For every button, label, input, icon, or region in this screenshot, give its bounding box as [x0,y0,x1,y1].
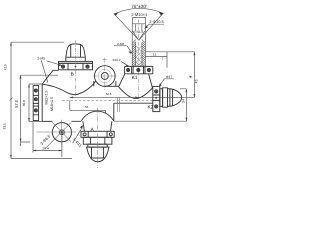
boss centerlines [93,58,119,91]
svg-text:Φ17: Φ17 [166,75,173,79]
extension lines right of boss axis [117,97,119,112]
small dim bracket right of nipple [146,52,168,68]
dim 56 [70,100,106,113]
svg-text:A: A [91,127,95,133]
svg-text:K2: K2 [147,105,153,111]
leader arrowheads [58,25,162,86]
boss circle [95,66,116,87]
svg-text:K1: K1 [132,75,138,81]
arrows 62.6 dim [70,97,73,99]
arrowhead right of arc [159,12,164,16]
dim line right 45 [146,52,195,98]
centerline K2 axis [70,96,195,98]
svg-text:M22×1.5: M22×1.5 [45,90,49,104]
svg-text:2-M5: 2-M5 [37,57,45,61]
dim line left mid 57.5 [21,75,58,146]
A neck [88,144,108,147]
svg-text:45: 45 [194,80,198,84]
svg-text:7: 7 [162,57,164,61]
A hex [83,137,112,144]
tick on x11 line [10,98,13,101]
B centerline [75,41,77,97]
svg-text:2-Φ6.3: 2-Φ6.3 [133,30,143,34]
dim line right 34 [114,89,186,121]
hidden bore dashed line [62,99,153,101]
svg-text:2-Φ10.5: 2-Φ10.5 [149,19,164,24]
svg-text:Φ10.2: Φ10.2 [112,58,121,62]
K1 mound [119,74,153,99]
svg-text:62.6: 62.6 [106,92,112,96]
angle legs 76 deg [114,13,164,40]
dim line left inner 36.8 [29,84,52,121]
dim line left overall height 81.1 [11,42,72,158]
K2 flange [153,86,160,111]
A boss walls [83,121,112,131]
nipple centerline [138,20,140,99]
svg-text:2-M10×1: 2-M10×1 [131,12,148,17]
small arrow at dim 45 [189,76,192,78]
white backing for angle label [129,2,149,8]
svg-text:42.5: 42.5 [3,64,7,70]
dim line mouth [132,18,145,24]
arrowheads dims [10,42,195,158]
svg-text:11: 11 [153,52,157,56]
B flange [59,61,93,69]
svg-text:36.8: 36.8 [22,100,26,106]
A flange [81,131,114,137]
angle arc [114,8,164,14]
spoke centerlines [37,120,77,149]
leader arrow filled [80,125,83,129]
svg-text:3-Φ11: 3-Φ11 [72,137,84,149]
svg-text:56: 56 [85,105,89,109]
body main outline [42,70,153,121]
A centerline [97,108,99,168]
svg-text:B: B [71,71,74,77]
nipple K1 section walls [132,24,145,67]
leader 2-dia10.5 [145,24,164,28]
svg-text:57.5: 57.5 [14,99,19,108]
dim 28.4 bottom [33,122,62,157]
A cap nut [87,147,110,162]
svg-text:34: 34 [182,99,186,103]
arrowhead left of arc [114,12,119,15]
K2 cap nut [160,88,182,107]
svg-text:81.1: 81.1 [2,123,6,129]
K1 flange [125,66,153,73]
bolt circle with spokes [52,123,71,142]
left flange strip [33,86,38,121]
svg-text:76°±30′: 76°±30′ [131,4,147,9]
svg-text:M18×1.5: M18×1.5 [50,97,54,111]
nipple hatch [132,40,145,67]
B cap nut [66,44,86,61]
